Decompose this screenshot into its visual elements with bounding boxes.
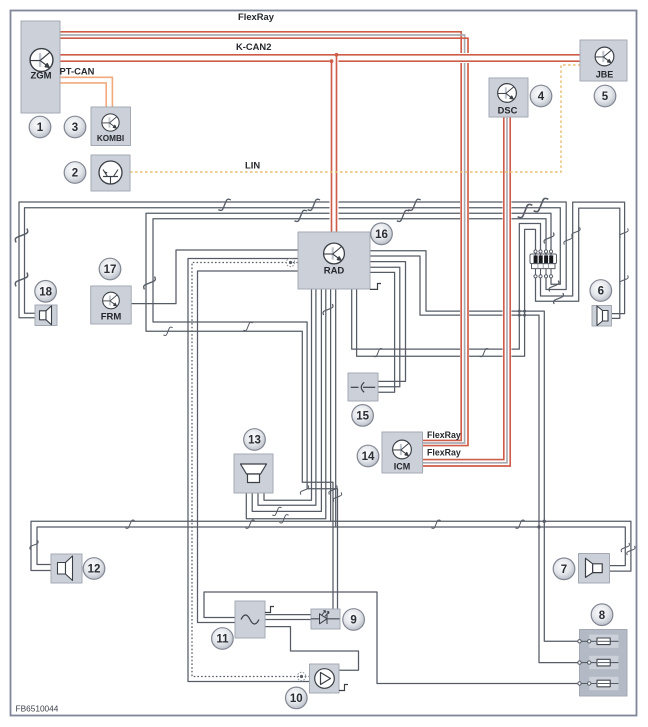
wire box11 to box9 lower bbox=[265, 619, 311, 621]
optional connector marker at box10 dotted wire bbox=[297, 672, 305, 680]
item number 3 bbox=[64, 116, 86, 138]
item number 16 bbox=[371, 223, 393, 245]
wire RAD bottom to connector pin1 upper bbox=[357, 229, 536, 356]
speaker 18 bbox=[35, 305, 57, 326]
K-CAN2 junction dot b bbox=[335, 53, 339, 57]
ECU JBE bbox=[580, 40, 627, 81]
item number 1 bbox=[29, 116, 51, 138]
item number 18 bbox=[35, 281, 57, 303]
wire long pair lower: speaker12 to speaker7 bbox=[37, 527, 625, 566]
svg-text:FlexRay: FlexRay bbox=[238, 11, 275, 22]
svg-text:ICM: ICM bbox=[394, 462, 411, 472]
svg-text:18: 18 bbox=[39, 287, 52, 299]
svg-text:PT-CAN: PT-CAN bbox=[60, 66, 95, 77]
svg-text:K-CAN2: K-CAN2 bbox=[236, 41, 271, 52]
svg-text:KOMBI: KOMBI bbox=[97, 134, 124, 143]
svg-text:14: 14 bbox=[362, 451, 375, 463]
FlexRay DSC gray core bbox=[423, 117, 508, 463]
wire RAD bottom join long pair b bbox=[335, 289, 337, 527]
K-CAN2 lower red line bbox=[60, 60, 580, 62]
svg-text:2: 2 bbox=[72, 168, 78, 180]
wire speaker18 inner to connector pin4 lower bbox=[25, 208, 561, 314]
wire RAD left to box10 bbox=[188, 259, 310, 682]
item number 5 bbox=[594, 85, 616, 107]
wire RAD right 2 to fuse2 bbox=[370, 256, 580, 663]
PT-CAN ZGM to KOMBI upper bbox=[60, 77, 112, 107]
K-CAN2 upper red line bbox=[60, 54, 580, 56]
item number 13 bbox=[244, 429, 266, 451]
svg-text:1: 1 bbox=[37, 122, 44, 134]
svg-text:9: 9 bbox=[350, 615, 356, 627]
wire speaker18 outer to connector pin3 lower bbox=[19, 202, 566, 318]
FlexRay DSC inner red bbox=[423, 117, 511, 466]
K-CAN2 junction dot a bbox=[330, 59, 334, 63]
svg-text:FlexRay: FlexRay bbox=[427, 430, 461, 440]
item number 4 bbox=[530, 85, 552, 107]
wire connector pin4 upper long snake to box9 bbox=[146, 213, 551, 609]
item number 14 bbox=[357, 445, 379, 467]
svg-text:3: 3 bbox=[72, 122, 78, 134]
ECU RAD bbox=[298, 232, 370, 289]
speaker 7 bbox=[579, 554, 610, 584]
wire RAD right 5 to box15 bbox=[370, 272, 395, 392]
junction dot fuse-pair on long pair b bbox=[537, 525, 540, 528]
svg-text:FB6510044: FB6510044 bbox=[16, 704, 59, 714]
wire RAD bottom join long pair a bbox=[330, 289, 332, 521]
wire RAD bottom to connector pin2 upper bbox=[352, 224, 541, 350]
item number 17 bbox=[99, 258, 121, 280]
svg-text:LIN: LIN bbox=[245, 160, 260, 171]
wire long pair upper: speaker12 to speaker7 bbox=[31, 521, 631, 571]
ECU DSC bbox=[489, 78, 528, 117]
K-CAN2 branch red b bbox=[336, 55, 338, 232]
coax terminator mark at RAD bbox=[370, 284, 381, 290]
wire RAD right 4 to box15 bbox=[370, 267, 400, 387]
svg-text:DSC: DSC bbox=[498, 106, 518, 116]
FlexRay bus gray core bbox=[60, 35, 465, 443]
wire RAD bottom to speaker13 lead1 bbox=[264, 289, 312, 500]
ECU KOMBI bbox=[91, 107, 131, 146]
item number 8 bbox=[591, 604, 613, 626]
wire connector pin2 lower to speaker6 bbox=[541, 202, 625, 314]
svg-text:JBE: JBE bbox=[596, 70, 614, 80]
svg-text:ZGM: ZGM bbox=[30, 71, 51, 82]
dotted optional wire RAD to box10 bbox=[192, 263, 310, 677]
speaker 12 bbox=[51, 554, 82, 583]
microphone item15 bbox=[348, 373, 378, 401]
wire RAD bottom to speaker13 lead3 bbox=[252, 289, 321, 511]
svg-text:12: 12 bbox=[88, 564, 101, 576]
item number 2 bbox=[64, 162, 86, 184]
fuse box 8 bbox=[578, 630, 627, 697]
svg-text:13: 13 bbox=[248, 435, 261, 447]
ECU ZGM bbox=[21, 21, 60, 113]
junction dots where RAD loops cross fuse-feeder pair bbox=[518, 310, 521, 313]
optional connector marker at RAD dotted wire bbox=[286, 258, 294, 266]
FlexRay bus ZGM to ICM white casing bbox=[60, 35, 465, 443]
amplifier box10 bbox=[310, 664, 340, 693]
item number 6 bbox=[590, 280, 612, 302]
svg-text:16: 16 bbox=[375, 229, 388, 241]
item number 11 bbox=[212, 628, 234, 650]
wire RAD left to box11 bbox=[198, 271, 299, 623]
svg-text:15: 15 bbox=[356, 411, 369, 423]
item number 9 bbox=[343, 609, 365, 631]
item number 12 bbox=[83, 558, 105, 580]
fuse F2 bbox=[581, 656, 618, 669]
wire connector pin1 lower to speaker6 bbox=[536, 208, 620, 318]
item number 10 bbox=[286, 687, 308, 709]
wire RAD right 3 to box15 bbox=[370, 262, 406, 382]
speaker 13 subwoofer bbox=[234, 454, 273, 493]
wire connector pin3 upper long snake to box9 bbox=[153, 219, 546, 609]
fuse terminal circles bbox=[578, 640, 581, 643]
transistor module item2 bbox=[91, 155, 130, 191]
svg-text:FRM: FRM bbox=[101, 312, 122, 323]
svg-text:10: 10 bbox=[290, 693, 303, 705]
FlexRay DSC to ICM white casing bbox=[423, 117, 508, 463]
wire RAD bottom to speaker13 lead4 bbox=[246, 289, 325, 519]
coax terminator mark at box10 bbox=[339, 685, 348, 691]
PT-CAN ZGM to KOMBI lower bbox=[60, 83, 106, 107]
item number 15 bbox=[352, 405, 374, 427]
svg-text:17: 17 bbox=[104, 264, 117, 276]
piezo box9 bbox=[311, 609, 340, 629]
wire FRM to RAD bbox=[131, 250, 298, 304]
junction dot fuse-pair on long pair a bbox=[543, 520, 546, 523]
wire RAD right 1 to fuse1 bbox=[370, 251, 580, 642]
speaker 6 bbox=[592, 306, 612, 327]
svg-text:FlexRay: FlexRay bbox=[427, 448, 461, 458]
K-CAN2 bus ZGM to JBE white casing bbox=[60, 53, 580, 63]
coax terminator mark at box11 bbox=[265, 607, 274, 613]
fuse F1 bbox=[581, 635, 618, 648]
K-CAN2 branch to RAD white casing bbox=[330, 56, 339, 232]
svg-text:7: 7 bbox=[561, 564, 567, 576]
wire box11 loop to fuse3 bbox=[204, 592, 580, 684]
wire box11 to box9 upper bbox=[265, 614, 311, 616]
ECU FRM bbox=[91, 286, 132, 324]
FlexRay bus inner red line bbox=[60, 38, 468, 445]
svg-text:4: 4 bbox=[538, 91, 545, 103]
ECU ICM bbox=[382, 432, 423, 473]
svg-text:11: 11 bbox=[216, 634, 229, 646]
svg-text:RAD: RAD bbox=[324, 266, 345, 277]
K-CAN2 branch red a bbox=[331, 61, 333, 232]
fuse F3 bbox=[581, 677, 618, 690]
LIN dashed wire box2 to JBE bbox=[130, 65, 580, 172]
FlexRay bus outer red line bbox=[60, 32, 461, 441]
wire box11 to box10 staircase bbox=[265, 627, 359, 671]
item number 7 bbox=[553, 558, 575, 580]
svg-text:8: 8 bbox=[599, 610, 606, 622]
svg-text:5: 5 bbox=[602, 91, 609, 103]
4-pin connector block bbox=[530, 250, 557, 278]
wire RAD bottom to speaker13 lead2 bbox=[258, 289, 316, 505]
FlexRay DSC outer red bbox=[423, 117, 504, 460]
oscillator box11 bbox=[235, 601, 265, 638]
svg-text:6: 6 bbox=[598, 286, 604, 298]
